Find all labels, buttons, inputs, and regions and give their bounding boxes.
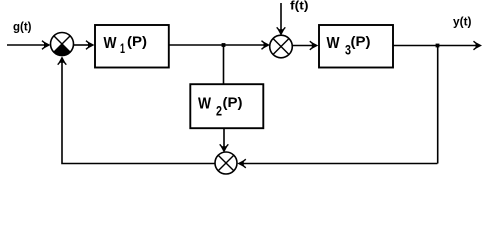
summing junction J2 [270,35,293,58]
wire: J2 to W3 [293,45,314,47]
svg-text:(P): (P) [127,33,147,49]
block W2 [190,84,263,128]
summing junction J1 [51,33,74,56]
svg-text:(P): (P) [351,33,371,49]
wire: input g to J1 [7,44,45,46]
svg-text:1: 1 [120,40,125,56]
block W3 [319,25,393,68]
wire: feedback bottom to J3 [242,163,438,165]
svg-text:g(t): g(t) [13,22,32,34]
svg-text:(P): (P) [223,94,243,110]
wire: branch down to W2 [223,45,225,84]
wire: J1 to W1 [74,44,90,46]
wire: f input down to J2 [280,3,282,31]
block W1 [95,25,169,68]
node: output branch dot [436,44,440,48]
svg-text:W: W [198,96,212,113]
svg-text:W: W [327,35,341,52]
svg-text:W: W [104,35,118,52]
wire: W3 to output y [393,45,476,47]
wire: J3 left and up to J1 [62,61,215,164]
svg-text:y(t): y(t) [453,17,472,29]
svg-text:f(t): f(t) [290,1,309,13]
wire: feedback right vertical [437,46,439,164]
node: branch dot [222,43,226,47]
wire: W1 to J2 [169,44,266,46]
summing junction J3 [215,152,237,174]
wire: W2 down to J3 [223,128,225,148]
svg-text:2: 2 [216,102,222,118]
